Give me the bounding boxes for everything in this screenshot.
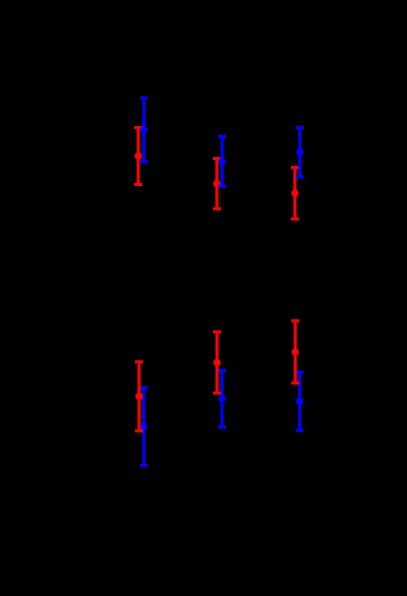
bottom panel: red series point 3 errorbar	[291, 321, 299, 383]
bottom panel: blue series point 1 errorbar	[140, 388, 148, 466]
top panel: blue series point 1 errorbar	[140, 98, 148, 162]
top panel: blue series point 3 errorbar	[296, 128, 304, 178]
top panel: red series point 1 errorbar	[134, 128, 142, 185]
top panel: red series point 2 errorbar	[213, 159, 221, 209]
bottom panel: red series point 1 errorbar	[135, 362, 143, 431]
bottom panel: blue series point 3 errorbar	[296, 372, 304, 430]
bottom panel: red series point 2 errorbar	[213, 332, 221, 393]
top panel: blue series point 2 errorbar	[218, 136, 226, 186]
top panel: red series point 3 errorbar	[291, 167, 299, 219]
bottom panel: blue series point 2 errorbar	[218, 370, 226, 427]
